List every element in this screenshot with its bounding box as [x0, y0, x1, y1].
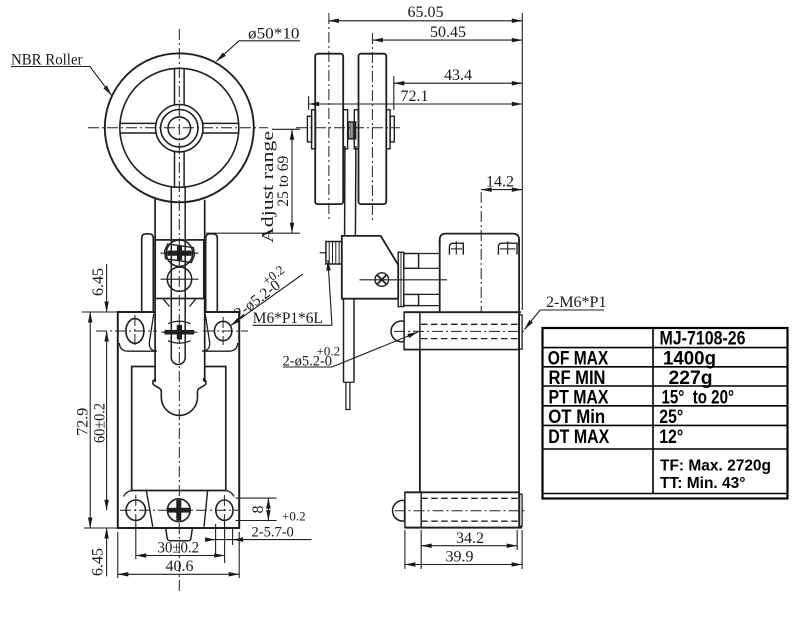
- svg-text:DT MAX: DT MAX: [548, 427, 609, 448]
- centerline vertical main (front view): [178, 29, 180, 591]
- dim 25to69 ext top: [272, 128, 300, 130]
- lever strip slot round end: [171, 358, 185, 365]
- dia 50*10 underline and leader: [217, 41, 301, 61]
- bottom flange diagonal left: [146, 491, 153, 527]
- bottom flange pocket curve left: [124, 491, 132, 497]
- side body right edge: [518, 240, 520, 528]
- svg-text:OF MAX: OF MAX: [548, 348, 609, 369]
- svg-text:25°: 25°: [659, 407, 683, 428]
- svg-text:1400g: 1400g: [663, 348, 716, 369]
- dim 72.9 line: [89, 312, 91, 528]
- side hub far left: [312, 110, 316, 149]
- lever strip edges (front view): [170, 187, 172, 358]
- side body left edge upper: [439, 240, 441, 312]
- strip adjusting screw arcs: [168, 321, 191, 343]
- lower band foot: [405, 492, 421, 527]
- upper band hidden hole lines: [421, 324, 519, 338]
- dim 60±0.2 line: [106, 331, 108, 510]
- svg-text:14.2: 14.2: [486, 174, 514, 191]
- bottom hole stub centerlines: [136, 495, 225, 526]
- dim 34.2 line: [421, 545, 517, 547]
- label 2-dia5.2 horizontal underline: [283, 366, 332, 368]
- lever arm outer edges (front view): [154, 199, 156, 382]
- flange mounting hole left: [126, 319, 144, 344]
- svg-text:TF: Max. 2720g: TF: Max. 2720g: [660, 458, 771, 475]
- clamp lower circle: [167, 267, 191, 291]
- svg-text:MJ-7108-26: MJ-7108-26: [660, 328, 746, 349]
- side head screw: [375, 273, 389, 287]
- lower band screw head: [393, 500, 405, 521]
- dim 30±0.2 ext lines: [135, 524, 137, 559]
- label 2-dia5.2 horizontal leader: [332, 332, 418, 367]
- svg-text:30±0.2: 30±0.2: [158, 540, 200, 557]
- label M6 underline: [253, 324, 333, 326]
- svg-text:NBR Roller: NBR Roller: [11, 52, 83, 69]
- clamp bottom chamfer right: [190, 299, 196, 306]
- NBR Roller underline and leader: [11, 67, 112, 96]
- bottom holes centerline: [120, 509, 238, 511]
- dim 72.1 line: [309, 103, 523, 105]
- upper band centerline: [394, 330, 526, 332]
- side hub inner left: [343, 110, 347, 149]
- side strip clamp between rollers: [349, 122, 356, 139]
- svg-text:+0.2: +0.2: [282, 509, 306, 524]
- roller spoke vertical bar: [175, 69, 185, 188]
- label 2-dia5.2 diagonal: [226, 262, 294, 322]
- upper band screw head: [391, 321, 404, 342]
- label 2-dia5.2 diagonal leader: [231, 274, 304, 326]
- svg-text:12°: 12°: [659, 427, 683, 448]
- dim ext body bottom left: [84, 527, 117, 529]
- side strip lower: [343, 299, 345, 383]
- clamp block: [155, 240, 204, 299]
- side knob tick: [320, 252, 326, 254]
- body outer rectangle (front view): [118, 312, 239, 528]
- plunger step and round end: [153, 378, 206, 415]
- side connector lines: [419, 254, 440, 306]
- side terminal block lower: [404, 294, 419, 305]
- clamp bottom chamfer left: [164, 299, 170, 306]
- dim 43.4 line: [394, 82, 523, 84]
- lower band centerline: [395, 510, 527, 512]
- roller hub flower circle: [156, 105, 203, 152]
- table outer border: [543, 328, 788, 499]
- dim 8 line: [267, 498, 269, 520]
- svg-text:60±0.2: 60±0.2: [92, 403, 109, 443]
- dim 30±0.2 line: [136, 555, 225, 557]
- svg-text:PT MAX: PT MAX: [549, 387, 609, 408]
- svg-text:39.9: 39.9: [446, 549, 474, 566]
- svg-text:OT Min: OT Min: [548, 407, 605, 428]
- centerline horizontal roller (front view): [88, 127, 268, 129]
- side strip upper: [344, 146, 346, 236]
- side body centerline: [480, 192, 482, 313]
- bottom mounting hole left: [126, 500, 145, 520]
- svg-text:M6*P1*6L: M6*P1*6L: [253, 310, 323, 327]
- clamp screw centerline: [161, 252, 199, 254]
- dim 40.6 ext lines: [117, 532, 119, 578]
- right reference extension line: [521, 13, 523, 310]
- roller outer circle: [105, 53, 254, 202]
- dim ext body top left: [82, 311, 117, 313]
- flange boss edge left: [149, 314, 157, 352]
- lower band top line: [405, 491, 520, 493]
- lower band hidden hole lines: [421, 498, 519, 521]
- dim 6.45 bottom line: [106, 528, 108, 576]
- svg-text:43.4: 43.4: [444, 67, 472, 84]
- label 2-M6 underline: [540, 309, 604, 311]
- side hub inner right: [354, 110, 358, 149]
- side terminal block upper: [404, 254, 419, 269]
- svg-text:34.2: 34.2: [456, 530, 484, 547]
- dim 6.45 top line: [106, 264, 108, 312]
- lower band bottom line: [405, 527, 522, 529]
- svg-text:8: 8: [250, 506, 267, 514]
- clamp left ear: [142, 234, 154, 312]
- label M6 leader to knob: [328, 260, 332, 325]
- svg-text:2-5.7-0: 2-5.7-0: [252, 525, 294, 541]
- upper band foot: [404, 312, 420, 349]
- dim 34.2 ext lines: [420, 530, 422, 569]
- bottom mounting hole right: [216, 500, 233, 520]
- upper band bottom line: [404, 349, 519, 351]
- side top tab left: [449, 243, 463, 254]
- table column divider: [652, 328, 654, 494]
- label 2-M6 leader: [525, 310, 541, 330]
- side knurled knob: [326, 242, 342, 265]
- lower band end cap: [520, 494, 523, 526]
- svg-text:25 to 69: 25 to 69: [275, 156, 292, 207]
- roller spoke horizontal bar: [120, 123, 238, 133]
- upper band top line: [404, 311, 521, 313]
- side horizontal centerline: [296, 127, 400, 129]
- clamp right ear: [206, 234, 218, 312]
- side roller right centerline: [371, 33, 373, 222]
- dim 39.9 ext lines: [404, 530, 406, 569]
- bottom flange diagonal right: [204, 491, 208, 527]
- clamp screw phillips cross: [167, 246, 191, 260]
- dim 39.9 line: [405, 564, 522, 566]
- svg-text:TT: Min. 43°: TT: Min. 43°: [660, 475, 746, 492]
- side roller left: [315, 54, 343, 204]
- bottom boss trapezoid: [166, 528, 193, 541]
- bottom center screw cross: [168, 500, 190, 521]
- bottom center screw circle: [167, 499, 190, 522]
- flange holes centerline horizontal: [96, 315, 248, 347]
- svg-text:RF MIN: RF MIN: [549, 368, 606, 389]
- dim 50.45 line: [372, 39, 522, 41]
- side head screw centerline: [360, 279, 448, 281]
- clamp screw circle: [166, 240, 192, 266]
- svg-text:65.05: 65.05: [408, 4, 444, 21]
- strip adjusting screw cross: [165, 325, 195, 340]
- side bellows: [398, 252, 404, 306]
- dim 72.1 ext line: [308, 96, 310, 110]
- bottom flange pocket curve right: [226, 491, 234, 497]
- side body left edge lower: [419, 350, 421, 493]
- svg-text:6.45: 6.45: [90, 268, 107, 296]
- dim 65.05 line: [328, 20, 522, 22]
- body inner panel rectangle: [132, 367, 226, 491]
- svg-text:72.9: 72.9: [75, 408, 92, 436]
- flange bottom edge right: [205, 343, 238, 351]
- dim 14.2 line: [481, 189, 522, 191]
- side body top: [440, 234, 519, 245]
- table row lines: [543, 348, 788, 494]
- side head block: [342, 236, 398, 299]
- svg-text:50.45: 50.45: [430, 24, 466, 41]
- flange bottom edge left: [119, 343, 154, 351]
- dim 25to69 ext bottom: [206, 232, 300, 234]
- side roller right: [359, 54, 387, 204]
- dim 25to69 line: [291, 129, 293, 233]
- svg-text:2-M6*P1: 2-M6*P1: [546, 294, 606, 311]
- upper band end cap: [519, 315, 522, 349]
- clamp lower circle centerline: [161, 278, 199, 280]
- label 2-5.7 leader and slot width arrows: [216, 539, 312, 541]
- flange mounting hole right: [214, 321, 231, 340]
- roller rim inner circle: [120, 68, 239, 187]
- side strip tail: [346, 382, 350, 409]
- svg-text:ø50*10: ø50*10: [248, 26, 300, 43]
- dim 8 ext lines: [236, 497, 277, 499]
- svg-text:227g: 227g: [669, 368, 713, 389]
- side roller left centerline: [328, 13, 330, 222]
- clamp screw hexagon: [164, 244, 196, 263]
- flange boss edge right: [202, 314, 210, 352]
- side top tab right: [498, 243, 517, 254]
- svg-text:72.1: 72.1: [401, 88, 429, 105]
- strip screw centerline: [162, 331, 198, 333]
- svg-text:15° to 20°: 15° to 20°: [662, 387, 735, 408]
- roller hub middle circle: [161, 110, 198, 147]
- side hub far right: [386, 110, 390, 149]
- dim 40.6 line: [118, 573, 239, 575]
- dim 43.4 ext line: [393, 76, 395, 110]
- svg-text:6.45: 6.45: [89, 548, 106, 576]
- roller bore circle: [168, 117, 191, 140]
- svg-text:40.6: 40.6: [166, 558, 194, 575]
